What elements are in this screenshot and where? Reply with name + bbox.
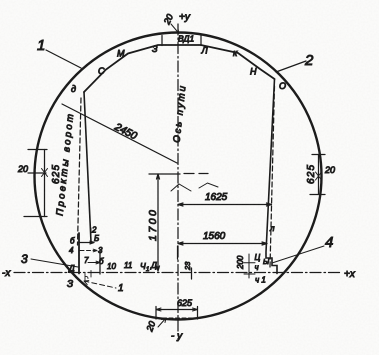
right dashed line bbox=[270, 86, 275, 267]
left step vertical bbox=[99, 251, 101, 274]
label 3 leader bbox=[31, 259, 78, 267]
dim 1625 line bbox=[178, 203, 272, 206]
left lower vertical line bbox=[78, 233, 80, 274]
right 625 dim bbox=[306, 155, 335, 195]
horizontal axis bbox=[14, 272, 340, 274]
bottom 20 annotation bbox=[144, 318, 166, 334]
label 1 bottom dashed leader bbox=[84, 281, 116, 288]
dim 200 right bbox=[236, 254, 255, 278]
radius 2450 line bbox=[62, 104, 177, 163]
gauge left edge bbox=[84, 92, 91, 242]
dim 1560 line bbox=[178, 242, 267, 245]
vertical axis (ось пути) bbox=[177, 24, 179, 341]
gauge left edge bottom tick bbox=[79, 241, 94, 244]
label 4 leader bbox=[272, 246, 324, 263]
Б flag below axis bbox=[85, 274, 88, 281]
dim 1700 line bbox=[157, 174, 160, 271]
top 20 annotation bbox=[161, 13, 179, 34]
label 2 leader bbox=[276, 61, 306, 72]
axis small tick bbox=[90, 271, 92, 278]
dim 1700 top tick bbox=[149, 173, 180, 175]
paper grain bbox=[0, 0, 1, 1]
left 625 dim bbox=[17, 150, 62, 217]
2 tick bottom-left bbox=[90, 228, 92, 242]
dim 23 tick bbox=[191, 268, 193, 279]
gauge top outline bbox=[84, 45, 275, 92]
left steps dashed line to 3 bbox=[80, 249, 97, 252]
bottom 625 bracket bbox=[156, 298, 198, 319]
break zigzag bbox=[171, 183, 218, 191]
center short line bbox=[177, 246, 179, 259]
gauge right edge bbox=[266, 79, 277, 274]
left dashed doors line bbox=[78, 98, 82, 245]
left step line 7-6 bbox=[88, 261, 100, 264]
label 1 leader bbox=[46, 50, 81, 68]
top flat ticks (В Д) bbox=[162, 35, 201, 46]
tunnel circle bbox=[35, 33, 322, 320]
